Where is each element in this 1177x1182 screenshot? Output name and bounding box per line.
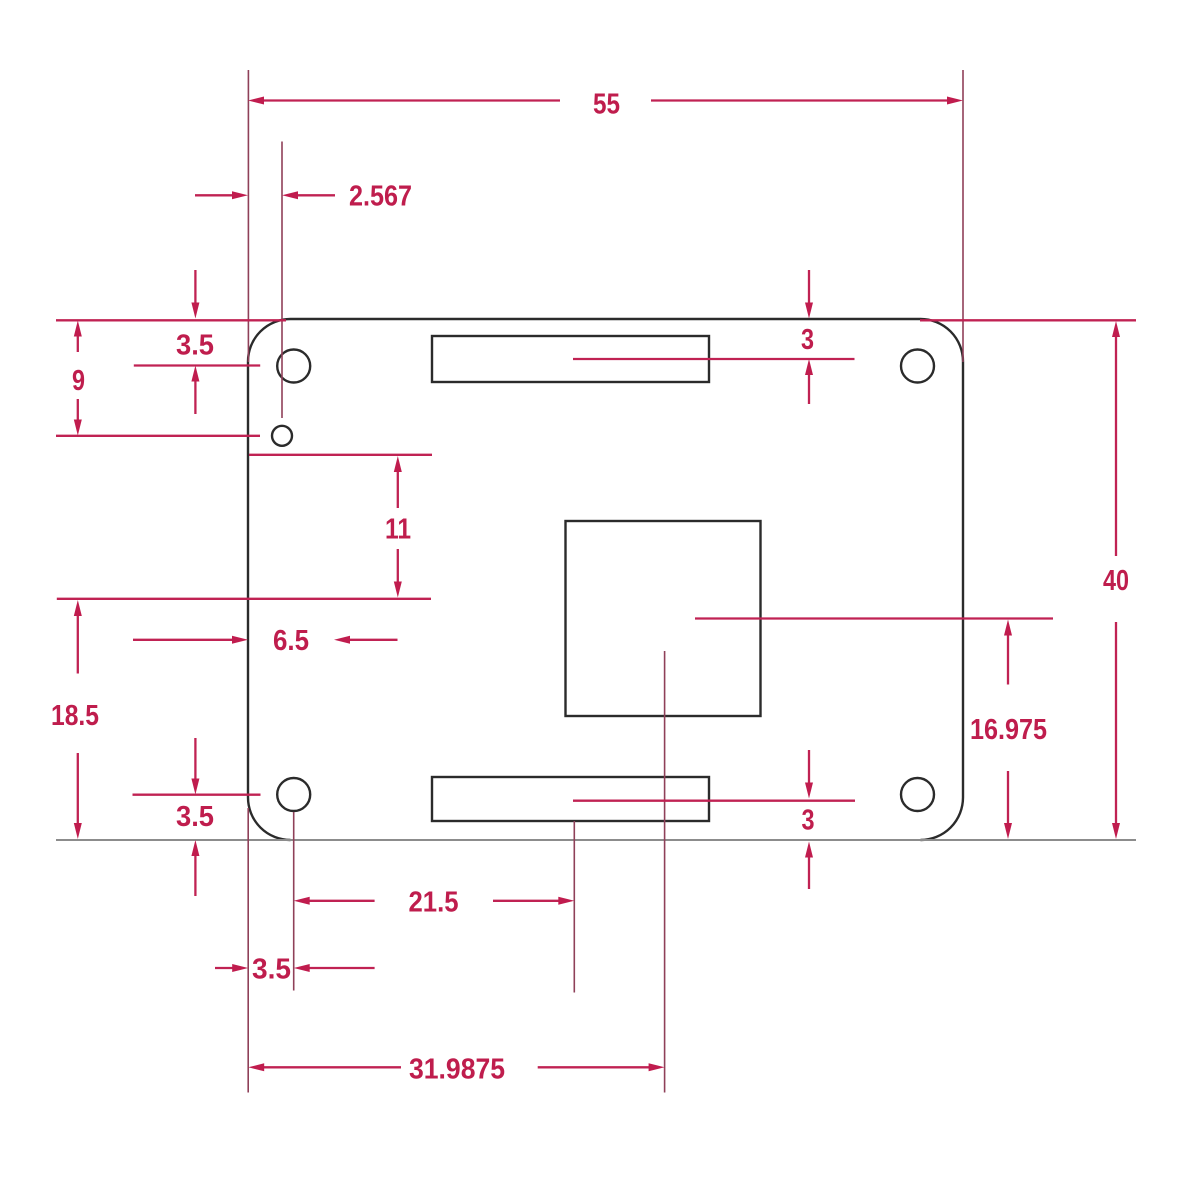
dim 11 lines (397, 471, 399, 508)
arrowhead 11 down (394, 582, 402, 598)
extension line bottom rect (573, 821, 575, 993)
dim 55 line right (651, 99, 947, 101)
reference line y599 (57, 598, 431, 600)
arrowhead 18.5 up (74, 600, 82, 616)
svg-text:2.567: 2.567 (349, 181, 412, 213)
dim 55 line left (264, 99, 560, 101)
dim 3.5 bottom-left lines (194, 738, 196, 780)
arrowhead 3bot up (805, 842, 813, 858)
arrowhead 55 left (248, 97, 264, 105)
arrowhead 16.975 up (1004, 620, 1012, 636)
svg-text:11: 11 (385, 514, 411, 546)
dim 3 top lines (808, 270, 810, 303)
svg-text:21.5: 21.5 (409, 887, 459, 919)
reference line top-left hole centerline (134, 364, 260, 366)
mounting hole top-right (901, 350, 934, 383)
arrowhead 2.567 left (232, 191, 248, 199)
dim 40 lines (1115, 336, 1117, 556)
mounting hole top-left (277, 350, 310, 383)
svg-text:3.5: 3.5 (176, 801, 214, 833)
center square component (566, 521, 761, 716)
arrowhead 21.5 left (294, 897, 310, 905)
reference line top edge right (920, 319, 1136, 321)
dim 6.5 lines (133, 639, 233, 641)
reference line square centerline (695, 617, 1053, 619)
reference line bottom-left hole centerline (133, 794, 261, 796)
arrowhead 21.5 right (558, 897, 574, 905)
arrowhead 31.9875 left (248, 1063, 264, 1071)
arrowhead 9 up (74, 321, 82, 337)
reference line bottom rect centerline (573, 800, 855, 802)
extension line square center (664, 651, 666, 1093)
dim 31.9875 lines (263, 1066, 401, 1068)
arrowhead 3.5B left (294, 964, 310, 972)
svg-text:6.5: 6.5 (273, 625, 309, 657)
arrowhead 55 right (947, 97, 963, 105)
arrowhead 18.5 down (74, 823, 82, 839)
arrowhead 2.567 right (282, 191, 298, 199)
arrowhead 16.975 down (1004, 823, 1012, 839)
svg-text:3.5: 3.5 (176, 330, 214, 362)
arrowhead 6.5 right (232, 636, 248, 644)
svg-text:3: 3 (802, 805, 815, 837)
svg-text:3: 3 (801, 324, 814, 356)
dim 16.975 lines (1007, 635, 1009, 685)
arrowhead 9 down (74, 420, 82, 436)
dim 2.567 line right (297, 194, 335, 196)
extension line left top (247, 70, 249, 362)
arrowhead 40 down (1112, 823, 1120, 839)
arrowhead 31.9875 right (649, 1063, 665, 1071)
reference line top edge left (56, 319, 286, 321)
extension line right top (962, 70, 964, 362)
svg-text:9: 9 (72, 365, 85, 397)
arrowhead 40 up (1112, 321, 1120, 337)
reference line small hole centerline (56, 435, 260, 437)
top connector rectangle (432, 336, 709, 382)
dim 3 bottom lines (808, 750, 810, 784)
dim 2.567 line left (195, 194, 233, 196)
svg-text:18.5: 18.5 (51, 700, 99, 732)
small hole (272, 426, 292, 446)
mounting hole bottom-left (277, 778, 310, 811)
arrowhead 3.5TL down (191, 303, 199, 319)
reference line top rect centerline (573, 358, 855, 360)
bottom connector rectangle (432, 777, 709, 821)
reference line y455 (249, 454, 432, 456)
arrowhead 3.5TL up (191, 366, 199, 382)
svg-text:3.5: 3.5 (252, 954, 291, 986)
svg-text:55: 55 (593, 88, 620, 120)
svg-text:31.9875: 31.9875 (409, 1054, 505, 1086)
arrowhead 3top up (805, 359, 813, 375)
arrowhead 3.5B right (232, 964, 248, 972)
arrowhead 11 up (394, 456, 402, 472)
arrowhead 6.5 left (334, 636, 350, 644)
arrowhead 3.5BL down (191, 779, 199, 795)
arrowhead 3.5BL up (191, 840, 199, 856)
extension line bottom-left hole (293, 812, 295, 991)
board outline (248, 319, 963, 840)
dim 3.5 bottom edge lines (215, 967, 233, 969)
dim 3.5 top arrow lines (194, 270, 196, 303)
board bottom edge / extension (56, 839, 1136, 841)
svg-text:40: 40 (1103, 565, 1129, 597)
arrowhead 3top down (805, 303, 813, 319)
dim 9 lines (77, 336, 79, 353)
mounting hole bottom-right (901, 778, 934, 811)
svg-text:16.975: 16.975 (970, 714, 1047, 746)
dim 21.5 lines (309, 900, 375, 902)
arrowhead 3bot down (805, 783, 813, 799)
extension line small hole (281, 142, 283, 419)
extension line left bottom (247, 808, 249, 1093)
dim 18.5 lines (77, 615, 79, 674)
